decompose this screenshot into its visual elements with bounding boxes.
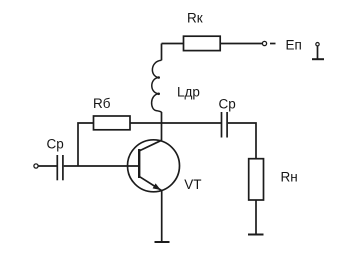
terminal circle Ep	[262, 41, 266, 45]
capacitor C2 Cp (output coupling)	[222, 112, 228, 138]
svg-text:Eп: Eп	[286, 38, 302, 53]
emitter arrowhead	[153, 183, 161, 190]
transistor base bar	[138, 149, 140, 178]
wire junction up to Rb left	[78, 123, 94, 166]
transistor collector lead	[140, 140, 162, 150]
capacitor C1 Cp (input coupling)	[57, 155, 63, 180]
svg-text:Rб: Rб	[93, 96, 111, 111]
svg-text:Rк: Rк	[187, 11, 203, 26]
input terminal circle	[34, 164, 38, 168]
pin symbol top circle	[316, 43, 319, 46]
resistor Rn	[249, 159, 264, 200]
svg-text:Cр: Cр	[47, 137, 64, 152]
wire Cp2 to Rn top	[228, 123, 256, 159]
ground bar (emitter)	[155, 241, 170, 243]
inductor Ldr coil	[152, 60, 162, 112]
pin symbol post	[317, 46, 319, 59]
pin symbol base bar	[312, 58, 324, 60]
wire top horizontal to Rk left	[162, 43, 184, 45]
resistor Rk	[184, 36, 221, 50]
transistor emitter lead	[140, 177, 162, 191]
svg-text:Cр: Cр	[219, 97, 236, 112]
wire Rk right to supply terminal	[220, 43, 262, 45]
wire input terminal to Cp1	[38, 165, 56, 167]
svg-text:Lдр: Lдр	[177, 84, 200, 99]
wire Cp1 to transistor base	[64, 165, 139, 167]
dash after terminal	[270, 43, 276, 45]
wire node top vertical to Rk row	[161, 44, 163, 61]
svg-text:Rн: Rн	[281, 170, 298, 185]
transistor VT body circle	[128, 140, 180, 192]
wire Rn bottom to ground	[255, 200, 257, 235]
wire Rb right to node and to Cp2	[130, 122, 221, 124]
wire emitter to ground	[161, 191, 163, 242]
resistor Rb	[94, 116, 131, 130]
ground bar (Rn)	[248, 234, 264, 236]
svg-text:VT: VT	[184, 177, 201, 192]
wire coil bottom through node to collector	[161, 112, 163, 140]
